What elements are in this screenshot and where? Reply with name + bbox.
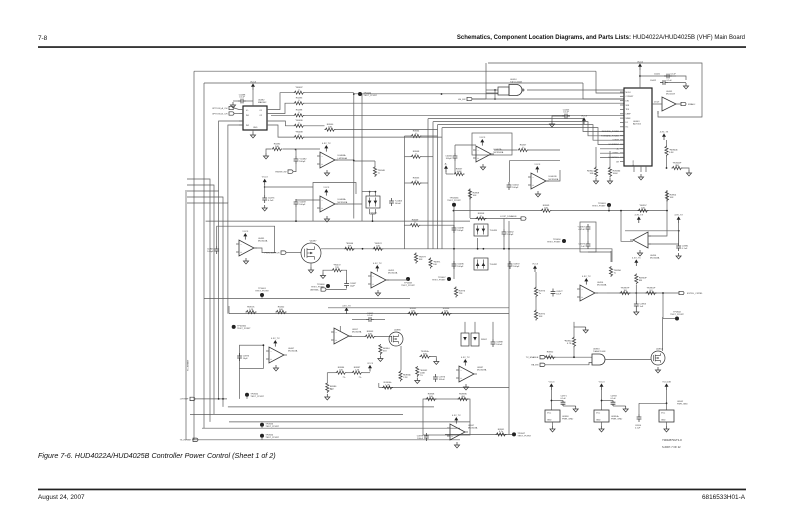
svg-text:0.1uF: 0.1uF: [367, 315, 373, 317]
wire: [573, 322, 575, 327]
test point TP0456: [562, 239, 566, 243]
svg-text:4.9V_TX: 4.9V_TX: [582, 276, 591, 278]
connector HS_EN: [467, 97, 472, 100]
svg-text:MC34119: MC34119: [666, 94, 676, 96]
capacitor C0954: [638, 414, 640, 422]
resistor R0969b: [458, 397, 469, 400]
svg-text:4.3V_TX: 4.3V_TX: [452, 415, 461, 417]
wire lower bus: [204, 298, 410, 300]
svg-text:TX_ENABLE: TX_ENABLE: [526, 356, 539, 359]
junction: [666, 402, 668, 404]
svg-text:DOUT: DOUT: [654, 102, 660, 104]
wire: [372, 214, 374, 221]
wire VTEMP: [195, 398, 227, 400]
svg-text:1.2K: 1.2K: [355, 370, 360, 372]
ground C0981: [676, 253, 681, 259]
svg-text:TEST_POINT: TEST_POINT: [255, 290, 269, 292]
svg-text:OPTION_B_CH: OPTION_B_CH: [212, 113, 228, 115]
junction: [441, 93, 443, 95]
wire U0483 output: [335, 203, 362, 205]
svg-text:MAX942: MAX942: [258, 101, 267, 104]
comparator U0482: [243, 106, 267, 130]
wire vertical riser 4: [441, 128, 443, 249]
svg-text:6816533H01-A: 6816533H01-A: [702, 494, 746, 501]
wire nested corner 1: [187, 179, 210, 422]
wire nested corner 2: [187, 185, 214, 414]
wire vertical R0959 net: [469, 190, 471, 218]
wire: [431, 357, 437, 359]
power 4.3V_TX: [635, 263, 637, 266]
svg-text:VCC: VCC: [661, 412, 666, 414]
wire: [494, 149, 517, 151]
ground U0455: [375, 290, 380, 296]
wire: [296, 199, 317, 200]
resistor R0961: [496, 433, 507, 436]
power VCC3: [534, 269, 536, 272]
resistor R0940: [325, 128, 336, 131]
wire nested corner 3: [187, 191, 219, 399]
wire to ground: [574, 327, 586, 337]
wire main mid bus: [321, 249, 612, 262]
junction: [635, 292, 637, 294]
wire U0485 output jog: [254, 248, 276, 253]
resistor R0986: [326, 382, 329, 393]
junction HS_EN: [494, 98, 496, 100]
wire U0461B output: [546, 170, 560, 181]
power 4.3V_TX: [663, 137, 665, 140]
svg-text:100pF: 100pF: [513, 266, 520, 268]
resistor R0957: [638, 209, 649, 212]
svg-text:10K: 10K: [433, 264, 437, 266]
wire: [369, 209, 371, 214]
resistor R0975: [534, 287, 537, 298]
capacitor C0488: [238, 100, 246, 102]
svg-text:CREF: CREF: [626, 114, 632, 116]
power 4.3V_TX: [455, 420, 457, 423]
wire: [595, 147, 597, 167]
wire vertical riser 1: [427, 119, 429, 249]
svg-text:MC3509A: MC3509A: [352, 331, 362, 334]
wire: [261, 297, 263, 299]
svg-text:TEST_POINT: TEST_POINT: [265, 426, 279, 428]
wire AND gate input A: [486, 92, 498, 94]
wire: [666, 140, 668, 146]
wire vertical riser 3: [437, 125, 439, 249]
DAC U0443: [624, 88, 652, 166]
svg-text:GND: GND: [596, 419, 601, 421]
power VCC3: [601, 387, 603, 390]
svg-text:100pF: 100pF: [299, 161, 306, 163]
wire net to DAC top: [194, 70, 596, 72]
svg-text:10K: 10K: [473, 195, 477, 197]
resistor R0966c: [382, 386, 393, 389]
junction: [369, 191, 371, 193]
resistor R0956b: [399, 371, 402, 382]
svg-text:MC3344A: MC3344A: [650, 257, 660, 260]
feedback box U0483: [313, 183, 356, 222]
svg-text:MC3502A: MC3502A: [388, 272, 398, 275]
wire U0482 out to R0486: [271, 121, 294, 126]
header rule: [38, 46, 746, 48]
junction: [503, 248, 505, 250]
svg-text:50K: 50K: [368, 333, 372, 335]
svg-text:VCC3: VCC3: [581, 115, 588, 117]
svg-text:61K: 61K: [383, 350, 387, 352]
svg-text:PWR_GND: PWR_GND: [611, 419, 623, 421]
wire VCC5 to DAC: [639, 70, 641, 88]
wire: [503, 237, 505, 249]
ground U0483A: [324, 216, 329, 222]
wire long vertical bus: [508, 221, 510, 435]
wire second bus line: [204, 82, 583, 84]
svg-text:MC3502A: MC3502A: [288, 350, 298, 353]
svg-text:VCC3: VCC3: [599, 381, 606, 383]
junction: [295, 149, 297, 151]
resistor R0940b: [665, 146, 668, 157]
wire: [678, 223, 680, 243]
resistor R0946b: [608, 167, 611, 178]
footer rule: [38, 489, 746, 491]
ground U0467: [273, 365, 278, 371]
wire into DAC MCLK pin: [596, 71, 624, 93]
test point TP0942: [245, 393, 249, 397]
svg-text:VCURRENT: VCURRENT: [608, 144, 619, 146]
wire: [676, 103, 681, 105]
test point TP0467: [447, 277, 451, 281]
svg-text:PA_EN: PA_EN: [531, 364, 538, 367]
wire VCC branch: [266, 186, 313, 188]
svg-text:4.3V_TX: 4.3V_TX: [674, 214, 683, 216]
ground C0465: [549, 121, 554, 127]
svg-text:VCC3: VCC3: [262, 177, 269, 179]
wire: [602, 400, 614, 402]
connector TX_ENABLE: [540, 356, 545, 359]
svg-text:0.1uF: 0.1uF: [667, 80, 673, 82]
wire: [293, 164, 296, 172]
svg-text:AD7002: AD7002: [633, 123, 642, 126]
resistor R0963: [365, 335, 376, 338]
resistor R0945: [411, 181, 422, 184]
svg-text:VCC3: VCC3: [323, 187, 330, 189]
wire: [362, 191, 375, 193]
wire EXTRL net: [607, 292, 679, 294]
wire DAC sense net 3: [438, 125, 625, 141]
resistor R0946c: [344, 247, 355, 250]
svg-text:MC3344A: MC3344A: [597, 284, 607, 287]
svg-text:Figure 7-6. HUD4022A/HUD4025B: Figure 7-6. HUD4022A/HUD4025B Controller…: [38, 451, 276, 460]
power VCC3: [264, 182, 266, 185]
svg-text:Schematics, Component Location: Schematics, Component Location Diagrams,…: [457, 35, 745, 41]
wire: [445, 171, 447, 174]
wire: [601, 390, 603, 410]
svg-text:MC3502A: MC3502A: [494, 151, 504, 154]
svg-text:RXADJ: RXADJ: [688, 103, 695, 106]
junction: [264, 186, 266, 188]
wire box to VTEMP line: [239, 368, 241, 399]
wire DAC bus line 1: [305, 102, 625, 104]
resistor R0969: [541, 209, 552, 212]
svg-text:LOOP_DISABLE: LOOP_DISABLE: [500, 215, 517, 218]
svg-text:REVERSE_POWER: REVERSE_POWER: [602, 131, 620, 133]
svg-text:0.1uF: 0.1uF: [611, 398, 617, 400]
power 4.3V_TX: [678, 220, 680, 223]
wire nested corner 5: [187, 203, 228, 314]
wire DAC aux pin net: [600, 152, 624, 154]
op-amp U0484A: [320, 152, 335, 168]
junction: [222, 398, 224, 400]
op-amp U0462A: [476, 146, 491, 162]
junction: [508, 248, 510, 250]
resistor R0488: [294, 136, 305, 139]
op-amp U0467: [269, 347, 284, 363]
ground at C0488: [230, 102, 235, 108]
ground Q0487: [308, 267, 313, 273]
svg-text:.047uF: .047uF: [578, 229, 585, 231]
capacitor C0946: [216, 246, 218, 254]
svg-text:VCC: VCC: [596, 412, 601, 414]
capacitor C0463: [391, 198, 393, 206]
svg-text:6M: 6M: [639, 280, 642, 282]
ground U0967: [454, 442, 459, 448]
wire: [374, 319, 385, 321]
wire resistor row bus: [229, 313, 509, 315]
test point TP0466: [326, 284, 330, 288]
resistor R0971: [429, 258, 432, 269]
svg-text:10uF: 10uF: [556, 294, 562, 296]
junction: [573, 356, 575, 358]
resistor R0956d: [420, 355, 431, 358]
svg-text:VTEMP: VTEMP: [612, 140, 619, 142]
ground U0482: [250, 132, 255, 138]
svg-text:4.3V_TX: 4.3V_TX: [632, 257, 641, 259]
svg-text:4.9V_TX: 4.9V_TX: [322, 143, 331, 145]
svg-text:HS_EN: HS_EN: [458, 99, 466, 101]
svg-text:100K: 100K: [613, 173, 619, 175]
svg-text:0.1uF: 0.1uF: [561, 398, 567, 400]
ground R0964: [378, 356, 383, 362]
wire: [234, 113, 239, 115]
svg-text:4.3V_TX: 4.3V_TX: [660, 131, 669, 133]
ground U0496: [637, 250, 642, 256]
test point TP0842: [675, 317, 679, 321]
wire: [494, 90, 496, 99]
connector PWR_SWITCH: [281, 251, 286, 254]
wire: [639, 402, 667, 404]
wire: [374, 161, 376, 166]
svg-text:TEST_POINT: TEST_POINT: [517, 436, 531, 438]
svg-text:100pF: 100pF: [446, 158, 453, 160]
junction at TP0442: [353, 93, 355, 95]
test point TP0947: [512, 432, 516, 436]
ground decoupling: [683, 83, 688, 89]
svg-text:LM2904A: LM2904A: [338, 157, 348, 160]
power 4.3V_TX: [376, 268, 378, 271]
wire op-amp U0484A output: [335, 159, 354, 161]
resistor R0950: [572, 337, 575, 348]
wire to TP0842: [663, 318, 675, 320]
wire U0482 out2 to R0493: [271, 103, 294, 113]
svg-text:10K: 10K: [544, 207, 548, 209]
svg-text:100pF: 100pF: [507, 234, 514, 236]
wire: [349, 336, 365, 338]
wire: [683, 168, 690, 170]
ground: [599, 426, 604, 432]
wire vertical to diode pack: [361, 94, 363, 221]
wire bottom bus 2: [202, 427, 460, 429]
ground C0971: [573, 406, 578, 412]
test point TP0463b: [452, 203, 456, 207]
MOSFET Q0954: [651, 351, 665, 365]
resistor R0462: [276, 310, 287, 313]
resistor R0951F: [646, 291, 657, 294]
op-amp U0483A: [320, 196, 335, 212]
cap frame box: [580, 222, 596, 252]
ground R0492: [263, 153, 268, 159]
svg-text:1M: 1M: [623, 290, 626, 292]
dual diode D0491: [366, 196, 380, 208]
svg-text:4.3V_TX: 4.3V_TX: [461, 357, 470, 359]
svg-text:VCC3: VCC3: [479, 137, 486, 139]
svg-text:VCC3: VCC3: [242, 231, 249, 233]
wire: [477, 238, 479, 249]
svg-text:PWR_GND: PWR_GND: [562, 419, 574, 421]
wire feedback: [648, 211, 667, 236]
resistor R0942: [594, 167, 597, 178]
svg-text:7-8: 7-8: [38, 35, 48, 42]
capacitor C0465: [562, 115, 570, 117]
wire hook: [378, 383, 380, 388]
svg-text:4.3V_TX: 4.3V_TX: [635, 214, 644, 216]
resistor R0954: [665, 191, 668, 202]
junction: [372, 220, 374, 222]
svg-text:U0484A: U0484A: [338, 154, 346, 157]
wire to R0498: [271, 114, 294, 116]
wire: [310, 263, 312, 267]
ground C0953: [634, 309, 639, 315]
wire to decoupling caps: [640, 75, 676, 77]
svg-text:0.1uF: 0.1uF: [239, 97, 245, 99]
power 4.3V_TX: [638, 220, 640, 223]
svg-text:8M: 8M: [675, 165, 678, 167]
wire: [305, 136, 443, 138]
wire bottom bus 1: [229, 421, 470, 423]
capacitor C0972: [509, 261, 511, 269]
svg-text:10K: 10K: [411, 310, 415, 312]
svg-text:R0962: R0962: [481, 339, 488, 341]
input network box U0434: [498, 87, 509, 95]
wire: [400, 346, 402, 371]
wire AND to MOSFET: [605, 359, 651, 361]
junction: [263, 344, 265, 346]
wire: [635, 285, 637, 301]
resistor R0962b: [408, 312, 419, 315]
resistor R0958: [476, 217, 487, 220]
wire: [422, 156, 434, 158]
wire: [609, 151, 611, 167]
wire: [343, 270, 347, 281]
ground R0942: [593, 178, 598, 184]
svg-text:0.1uF: 0.1uF: [268, 200, 274, 202]
connector bottom left: [193, 438, 198, 441]
svg-text:1.7K: 1.7K: [249, 309, 254, 311]
junction: [678, 230, 680, 232]
svg-text:xVTEMP: xVTEMP: [180, 399, 189, 401]
wire upper resistor row bus: [328, 307, 509, 309]
wire: [421, 224, 455, 226]
power VCC3: [244, 236, 246, 239]
svg-text:0.1uF: 0.1uF: [682, 248, 688, 250]
wire U0496 plus input: [648, 243, 679, 245]
capacitor C0482: [295, 156, 297, 164]
wire into DAC pin: [583, 83, 624, 99]
svg-text:TEST_POINT: TEST_POINT: [237, 328, 251, 330]
wire: [405, 135, 411, 137]
capacitor C0978: [425, 433, 427, 441]
svg-text:PWR_GND: PWR_GND: [677, 404, 688, 406]
wire AND enclosure left edge: [485, 63, 487, 99]
svg-text:VCC3: VCC3: [548, 381, 555, 383]
feedback box U0462: [472, 133, 512, 155]
wire U0482 out1 to R0487: [271, 93, 294, 110]
svg-text:DGND: DGND: [633, 160, 635, 166]
svg-text:TEST_POINT: TEST_POINT: [363, 95, 377, 97]
wire: [305, 125, 325, 127]
junction AND input: [494, 89, 496, 91]
junction: [453, 248, 455, 250]
test point TP0442: [358, 92, 362, 96]
ground IC U0954: [594, 410, 609, 422]
wire: [374, 192, 376, 196]
test point TP0468: [406, 277, 410, 281]
resistor R0952: [545, 356, 556, 359]
resistor R0977: [414, 253, 417, 264]
svg-text:10K: 10K: [339, 370, 343, 372]
wire: [672, 76, 686, 80]
svg-text:4.3V_TX: 4.3V_TX: [342, 305, 351, 307]
resistor R0964: [379, 344, 382, 355]
capacitor C0496: [453, 261, 455, 269]
pins U0443 left: [620, 91, 624, 93]
feedback box U0485: [217, 226, 275, 252]
svg-text:C0442: C0442: [650, 80, 657, 82]
junction: [477, 248, 479, 250]
wire: [283, 148, 320, 150]
svg-text:TX_INHIBIT: TX_INHIBIT: [180, 440, 192, 442]
svg-text:100uF: 100uF: [439, 379, 446, 381]
wire: [472, 98, 495, 100]
capacitor C0977: [552, 289, 554, 297]
MOSFET Q0986: [389, 332, 403, 346]
power VCC3: [550, 387, 552, 390]
svg-text:10pF: 10pF: [243, 358, 249, 360]
svg-text:Q0954: Q0954: [656, 348, 663, 350]
svg-text:7%: 7%: [330, 389, 333, 391]
test point TP0461: [260, 293, 264, 297]
wire U0482 left pin down 2: [228, 125, 243, 203]
svg-text:10K: 10K: [670, 197, 674, 199]
svg-text:6M: 6M: [461, 396, 464, 398]
resistor R0950F: [635, 274, 638, 285]
wire: [295, 207, 297, 221]
power A+: [445, 169, 447, 172]
svg-text:CONVST: CONVST: [626, 96, 635, 98]
feedback box U0461B: [510, 161, 561, 182]
svg-text:TEST_POINT: TEST_POINT: [265, 437, 279, 439]
capacitor C0953: [635, 301, 637, 309]
svg-text:2.2K: 2.2K: [403, 377, 408, 379]
wire: [638, 403, 640, 414]
ground U0987: [463, 384, 468, 390]
